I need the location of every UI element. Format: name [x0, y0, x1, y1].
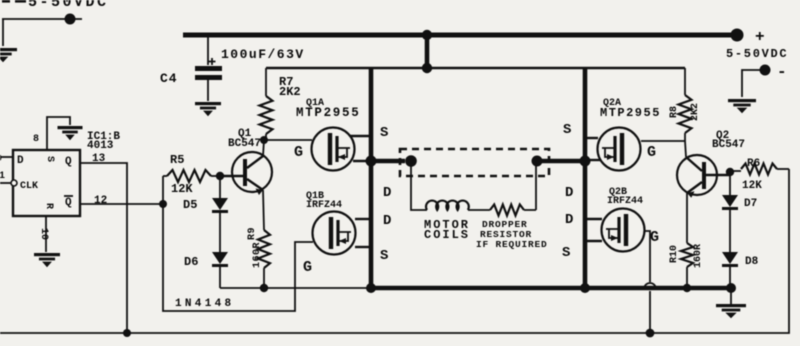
wire bottom thick rail — [369, 286, 735, 291]
label Q1B IRFZ44 — [306, 191, 342, 211]
resistor dropper — [490, 166, 536, 216]
svg-text:BC547: BC547 — [228, 138, 261, 150]
svg-text:R8: R8 — [669, 106, 680, 118]
label R5 12K — [170, 153, 193, 196]
ground supply-minus — [728, 99, 756, 113]
svg-text:G: G — [294, 144, 303, 161]
svg-text:4013: 4013 — [87, 140, 114, 152]
wire Q2B gate drop with hop — [644, 231, 656, 333]
label Q1 BC547 — [228, 128, 261, 150]
capacitor C4 — [195, 37, 222, 101]
transistor Q2B IRFZ44 mosfet — [585, 209, 645, 252]
pin Qbar label — [64, 196, 73, 209]
diode D8 — [722, 252, 738, 286]
node rail junction dot — [422, 63, 432, 73]
svg-text:160R: 160R — [693, 244, 704, 268]
node R9 bottom dot — [260, 284, 268, 292]
resistor R6 — [730, 164, 789, 175]
wire bus stub — [425, 35, 430, 68]
svg-text:+: + — [755, 28, 765, 46]
svg-text:Q: Q — [65, 197, 72, 209]
transistor Q1A MTP2955 mosfet — [312, 128, 372, 171]
svg-text:S: S — [380, 125, 388, 141]
svg-text:S: S — [563, 122, 571, 138]
node - terminal — [760, 63, 787, 81]
wire CLK input stub — [0, 171, 11, 183]
svg-text:D5: D5 — [183, 198, 197, 212]
wire reset pin 10 to ground — [38, 216, 49, 252]
ground reset pin — [34, 253, 60, 267]
svg-text:D: D — [383, 213, 391, 229]
transistor Q1B IRFZ44 mosfet — [313, 212, 372, 255]
node pin12 junction dot — [159, 200, 167, 208]
wire pin12 riser and lower return to Q1B gate — [163, 176, 313, 311]
wire +V top bus — [183, 33, 737, 38]
transistor Q2 BC547 — [677, 141, 730, 198]
label R10 160R rotated — [669, 244, 704, 268]
svg-text:D: D — [17, 155, 24, 167]
wire dashed direct-connection box — [400, 149, 549, 176]
svg-text:S: S — [44, 156, 55, 162]
label Q2 BC547 — [712, 130, 745, 151]
svg-text:COILS: COILS — [424, 228, 470, 242]
node Q1A drain dot — [366, 156, 376, 166]
svg-text:8: 8 — [33, 134, 39, 145]
pin CLK label — [11, 180, 38, 192]
wire pin13 bottom run — [0, 169, 789, 333]
svg-text:CLK: CLK — [20, 181, 38, 192]
resistor R5 — [163, 170, 220, 182]
wire right bridge vertical rail — [583, 68, 588, 288]
wire upper thin rail — [266, 67, 685, 69]
transistor Q2A MTP2955 mosfet — [585, 128, 641, 171]
svg-text:IRFZ44: IRFZ44 — [607, 196, 643, 207]
wire motor tap left — [371, 159, 405, 163]
svg-text:MTP2955: MTP2955 — [600, 106, 661, 120]
node motor tap dot on left rail — [366, 156, 377, 167]
label DROPPER RESISTOR IF REQUIRED — [476, 219, 548, 250]
svg-text:R: R — [43, 203, 54, 209]
wire ground return thin — [220, 287, 369, 289]
label R9 160R rotated — [247, 227, 263, 268]
svg-text:D: D — [383, 185, 391, 201]
svg-text:R10: R10 — [669, 245, 680, 263]
svg-text:12K: 12K — [171, 182, 193, 196]
wire pin12 Qbar output — [80, 203, 163, 205]
resistor R8 — [679, 68, 692, 141]
node bus junction dot — [422, 30, 432, 40]
svg-text:R6: R6 — [747, 158, 760, 170]
label R6 12K — [742, 158, 762, 192]
ground set pin — [58, 126, 83, 140]
resistor R10 — [681, 193, 693, 288]
label Q2A MTP2955 — [600, 98, 661, 120]
svg-text:2K2: 2K2 — [279, 85, 301, 99]
svg-text:2K2: 2K2 — [690, 103, 701, 121]
diode D7 — [722, 172, 738, 252]
wire set pin 8 to ground — [33, 117, 70, 150]
svg-text:S: S — [562, 245, 570, 261]
wire motor tap right — [541, 159, 585, 163]
op-amp IC1:B 4013 flip-flop box — [13, 150, 80, 216]
node Q1 collector junction dot — [260, 136, 268, 144]
svg-text:S: S — [380, 248, 388, 264]
svg-text:Q: Q — [65, 156, 72, 168]
svg-text:R5: R5 — [170, 153, 184, 167]
svg-text:C4: C4 — [160, 71, 178, 86]
node motor tap dot on right rail — [580, 156, 591, 167]
wire minus to ground — [742, 70, 765, 97]
svg-text:D: D — [565, 185, 573, 201]
transistor Q1 BC547 — [220, 140, 272, 195]
svg-text:IF REQUIRED: IF REQUIRED — [476, 239, 548, 250]
diode D6 — [212, 252, 228, 288]
node Q2B gate bottom dot — [646, 329, 655, 338]
resistor R7 — [260, 68, 273, 140]
svg-text:MTP2955: MTP2955 — [296, 106, 360, 120]
inductor motor coils — [411, 165, 490, 210]
svg-text:-: - — [777, 63, 787, 81]
label Q2B IRFZ44 — [607, 187, 643, 207]
node top-left junction dot — [65, 14, 76, 25]
svg-text:G: G — [647, 144, 656, 161]
label MOTOR COILS — [424, 218, 470, 242]
label IC1:B 4013 — [87, 131, 120, 152]
wire top-left supply — [2, 19, 82, 46]
svg-text:D: D — [565, 212, 573, 228]
svg-text:160R: 160R — [252, 242, 263, 268]
svg-text:G: G — [303, 259, 312, 276]
wire left bridge vertical rail — [369, 68, 374, 288]
svg-text:G: G — [650, 229, 659, 246]
svg-text:1N4148: 1N4148 — [175, 298, 234, 310]
svg-text:5-50VDC: 5-50VDC — [726, 47, 788, 61]
resistor R9 — [258, 190, 270, 288]
ground bottom rail — [716, 290, 746, 318]
svg-text:BC547: BC547 — [712, 139, 745, 151]
svg-text:IRFZ44: IRFZ44 — [306, 200, 342, 211]
svg-text:100uF/63V: 100uF/63V — [221, 47, 305, 62]
node left rail bottom dot — [366, 283, 376, 293]
diode D5 — [212, 176, 228, 252]
svg-text:D8: D8 — [745, 256, 759, 268]
svg-text:12K: 12K — [742, 180, 762, 192]
wire Q1 collector to gates — [264, 139, 312, 141]
svg-text:5-50VDC: 5-50VDC — [28, 0, 109, 11]
node D8 bottom rail dot — [726, 283, 736, 293]
svg-text:10: 10 — [38, 228, 49, 240]
svg-text:11: 11 — [0, 171, 5, 182]
label R8 2K2 rotated — [669, 103, 701, 121]
wire Q2A gate to R8 — [641, 140, 685, 142]
svg-text:12: 12 — [94, 195, 107, 207]
node motor right dot — [532, 156, 543, 167]
node bottom wire dot at pin13 drop — [123, 329, 131, 337]
svg-text:D6: D6 — [184, 255, 198, 269]
node bus + terminal dot — [731, 28, 765, 46]
label R7 2K2 — [279, 75, 301, 99]
svg-text:R9: R9 — [247, 227, 258, 240]
node R10 bottom dot — [683, 284, 691, 292]
wire D input stub — [0, 154, 13, 165]
svg-text:D7: D7 — [744, 198, 757, 210]
label Q1A MTP2955 — [296, 98, 360, 120]
ground C4 — [195, 102, 221, 116]
ground top-left — [0, 48, 17, 62]
svg-text:9: 9 — [0, 154, 2, 165]
node Q2 base dot — [726, 168, 734, 176]
node motor left dot — [405, 155, 417, 167]
node R5 output dot — [216, 172, 224, 180]
node right rail bottom dot — [580, 283, 590, 293]
wire pin13 Q output — [80, 163, 127, 333]
